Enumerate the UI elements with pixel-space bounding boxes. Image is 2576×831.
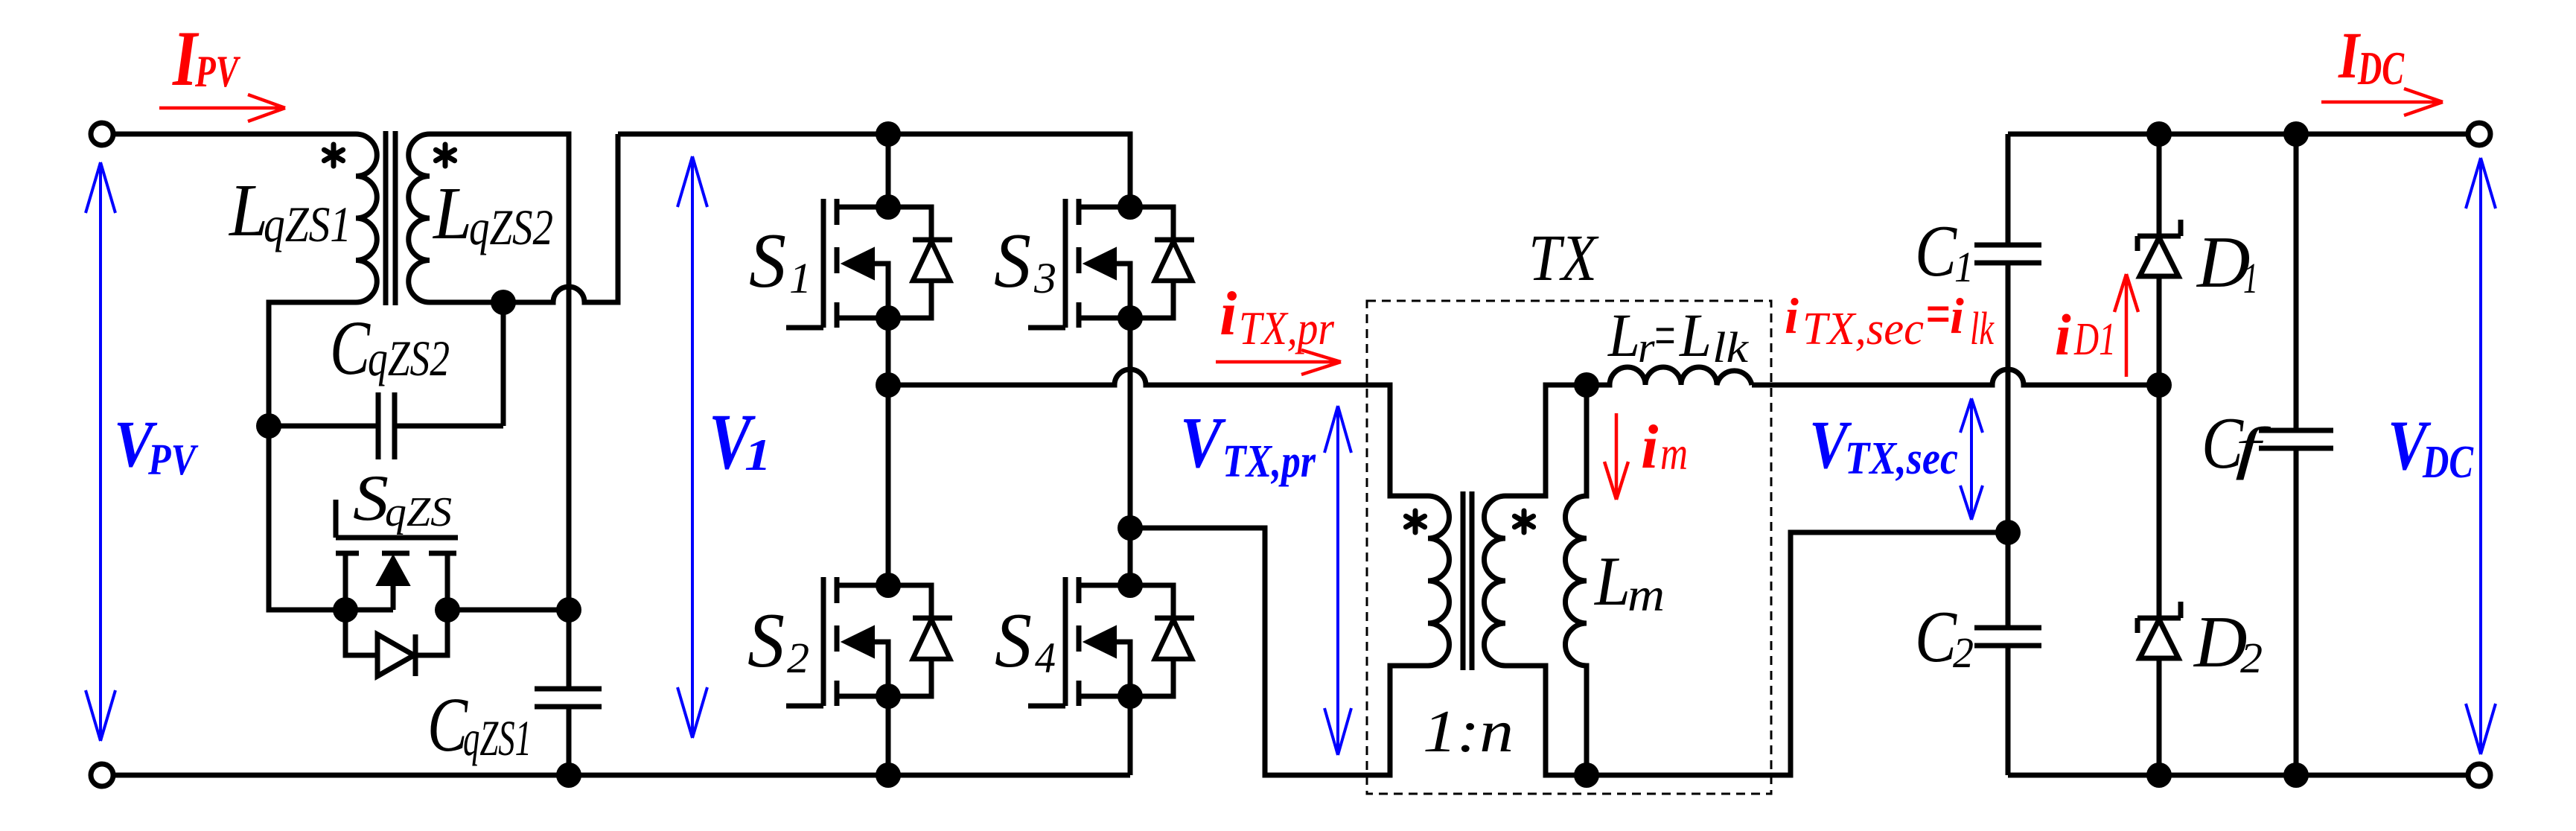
node D1 top dot [2146,121,2172,147]
label C2 [1915,596,1974,678]
label V_TX,sec [1809,407,1958,484]
wire TX primary bottom return [1130,528,1407,775]
svg-text:S: S [749,217,786,304]
arrow V_PV [86,162,115,741]
inductor L_qZS2 [409,134,430,302]
label i_TX,pr [1220,279,1335,354]
terminal output plus [2468,123,2490,145]
wire input top [113,132,356,137]
polarity mark TX secondary [1514,511,1533,532]
wire midpoint to S2 [886,385,891,585]
svg-text:C: C [330,305,371,391]
inductor L_qZS1 [356,134,377,302]
svg-text:i: i [2055,302,2071,367]
svg-text:qZS2: qZS2 [469,199,553,255]
node SqZS right dot [556,597,581,623]
node B dot [491,290,516,315]
arrow I_PV [159,95,285,121]
node Cf top dot [2283,121,2309,147]
winding TX secondary [1485,496,1505,666]
svg-text:L: L [432,171,472,255]
dashed TX box [1367,301,1771,794]
svg-text:1: 1 [2243,254,2258,302]
capacitor C2 [1974,532,2041,775]
label V_TX,pr [1180,403,1316,487]
node C_qZS1 bottom dot [556,762,581,788]
label Cf [2202,403,2271,484]
arrow V_1 [678,156,707,738]
label S1 [749,217,812,304]
switch S_qZS [333,500,460,676]
node D2 bottom dot [2146,762,2172,788]
core coupled inductor [386,131,395,305]
mosfet S3 [1028,194,1194,331]
svg-text:m: m [1660,427,1688,480]
winding TX primary [1407,496,1450,666]
label D1 [2196,222,2258,303]
label S2 [747,596,809,684]
svg-text:1: 1 [1954,243,1974,291]
polarity mark L_qZS1 [324,144,342,166]
svg-text:2: 2 [1953,628,1974,677]
terminal input minus [91,764,113,786]
wire TX secondary top [1505,385,1587,496]
core TX [1463,491,1472,670]
mosfet S4 [1028,573,1194,709]
wire S4 source to bottom rail [1128,692,1133,775]
node D1 D2 midpoint dot [2146,372,2172,398]
svg-text:L: L [228,168,268,252]
svg-text:L: L [1607,301,1640,369]
wire S1 source to midpoint [886,318,891,385]
wire L_qZS2 bottom [430,300,503,305]
svg-text:S: S [353,462,389,535]
label S_qZS [353,462,452,535]
svg-text:TX,pr: TX,pr [1222,436,1316,487]
svg-text:S: S [994,217,1031,304]
arrow i_m [1604,413,1628,500]
inductor Lr leakage [1587,367,1752,385]
wire top rail to bridge [618,134,1130,207]
svg-text:TX,pr: TX,pr [1239,302,1335,354]
wire S3 source to leg2 midpoint [1128,318,1133,585]
svg-text:TX,sec: TX,sec [1802,304,1924,354]
wire SqZS to C_qZS1 node [447,608,569,613]
label Lm [1593,543,1665,621]
arrow I_DC [2321,89,2443,115]
node secondary top dot [1574,372,1599,398]
wire secondary to rectifier with hump [1752,369,2159,385]
label L_qZS1 [228,168,351,252]
svg-text:qZS2: qZS2 [368,330,450,386]
svg-text:C: C [427,682,468,768]
svg-text:DC: DC [2422,437,2473,488]
wire secondary bottom to C-node [1587,532,2008,775]
label D2 [2193,602,2263,683]
arrow i_D1 [2114,274,2138,377]
mosfet S1 [786,194,952,331]
label C_qZS2 [330,305,450,391]
svg-text:DC: DC [2357,42,2404,95]
capacitor C_qZS1 [535,610,602,775]
diode D1 [2137,134,2181,385]
node Cf bottom dot [2283,762,2309,788]
svg-text:2: 2 [787,634,809,682]
node top rail dot [876,121,901,147]
label V_PV [114,408,199,484]
label I_PV [171,15,240,102]
label S4 [995,596,1056,684]
svg-text:3: 3 [1033,254,1056,302]
svg-text:TX,sec: TX,sec [1845,433,1958,484]
svg-text:i: i [1220,279,1237,348]
label V_DC [2388,406,2474,488]
svg-text:qZS: qZS [385,489,452,535]
svg-text:D: D [2196,222,2251,303]
node C_qZS2 left dot [256,413,281,439]
top rail right [2008,132,2468,137]
wire node to SqZS drain [269,426,345,610]
node bottom rail S2 dot [876,762,901,788]
inductor Lm [1566,385,1587,775]
svg-text:1:n: 1:n [1423,699,1514,765]
node leg2 midpoint dot [1118,515,1143,541]
svg-text:1: 1 [745,430,771,480]
arrow V_TX,sec [1960,398,1983,520]
svg-text:L: L [1679,301,1712,369]
capacitor C1 [1974,134,2041,532]
svg-text:V: V [1180,403,1227,483]
bottom rail left [113,773,1130,778]
wire S2 source to bottom rail [886,692,891,775]
label i_TX,sec=i_lk [1785,283,1995,354]
label Lr=Llk [1607,301,1749,372]
wire L_qZS1 bottom [269,302,356,426]
diode D2 [2137,385,2181,775]
label L_qZS2 [432,171,553,255]
arrow V_DC [2466,158,2496,754]
arrow V_TX,pr [1324,406,1351,755]
node leg1 midpoint dot [876,372,901,398]
svg-text:=: = [1925,283,1951,346]
svg-text:S: S [747,596,785,684]
svg-text:D1: D1 [2073,314,2116,365]
terminal input plus [91,123,113,145]
svg-text:PV: PV [194,47,241,96]
wire TX secondary bottom [1505,666,1587,775]
svg-text:TX: TX [1528,222,1599,295]
label i_D1 [2055,302,2116,367]
label S3 [994,217,1056,304]
svg-text:qZS1: qZS1 [463,710,532,766]
wire leg1 midpoint to TX primary [888,369,1407,496]
node C1 C2 midpoint dot [1995,520,2021,545]
node secondary bottom dot [1574,762,1599,788]
label I_DC [2338,19,2404,95]
svg-text:qZS1: qZS1 [264,196,351,252]
label V_1 [709,398,771,486]
svg-text:PV: PV [147,435,199,484]
svg-text:i: i [1641,413,1658,482]
svg-text:1: 1 [789,254,812,302]
capacitor Cf [2259,134,2333,775]
mosfet S2 [786,573,952,709]
svg-text:4: 4 [1035,634,1056,682]
svg-text:i: i [1785,287,1799,344]
wire top rail node to S1 [886,134,891,207]
polarity mark L_qZS2 [436,144,454,166]
capacitor C_qZS2 [269,302,503,459]
arrow i_TX,pr [1216,350,1341,375]
svg-text:=: = [1652,301,1677,369]
svg-text:D: D [2193,602,2248,683]
wire node B to bridge with hump [503,134,618,302]
label C_qZS1 [427,682,532,768]
bottom rail right [2008,773,2468,778]
label i_m [1641,413,1688,482]
svg-text:lk: lk [1712,323,1749,372]
polarity mark TX primary [1406,511,1424,532]
terminal output minus [2468,764,2490,786]
svg-text:C: C [1915,596,1957,678]
svg-text:C: C [1915,211,1957,292]
svg-text:m: m [1627,568,1665,621]
label C1 [1915,211,1974,292]
svg-text:L: L [1593,543,1630,620]
svg-text:i: i [1950,287,1964,344]
wire L_qZS2 top down to SqZS node [430,134,569,610]
svg-text:2: 2 [2240,634,2263,682]
svg-text:S: S [995,596,1032,684]
svg-text:lk: lk [1970,304,1995,354]
